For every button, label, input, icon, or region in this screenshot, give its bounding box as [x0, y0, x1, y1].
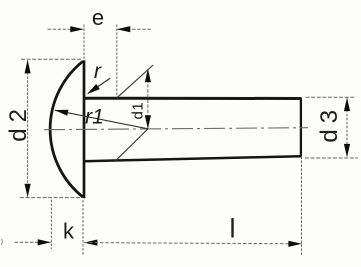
- l right arrowhead: [288, 241, 302, 247]
- d2 bottom extension line: [20, 197, 81, 199]
- radius line for r1 from dome to centre: [55, 110, 148, 129]
- d3 top arrowhead: [344, 98, 350, 112]
- k left arrowhead: [38, 239, 52, 245]
- shank top edge: [84, 97, 302, 100]
- oblique extension line (bottom) for d1: [116, 129, 148, 161]
- shank bottom edge: [84, 156, 301, 161]
- svg-text:r1: r1: [85, 106, 104, 129]
- d1 top arrowhead: [145, 69, 151, 83]
- svg-text:l: l: [230, 214, 236, 244]
- k left extension line (dome apex): [50, 200, 52, 250]
- arrowhead of r1 on dome arc: [55, 110, 69, 116]
- dimension e: right arrowhead: [117, 26, 131, 32]
- l right extension line (shank end): [301, 157, 303, 256]
- d3 dimension line: [346, 98, 348, 158]
- svg-text:k: k: [63, 219, 75, 244]
- shared extension line below head face (k right / l left): [82, 200, 84, 256]
- oblique extension line (top) for d1: [117, 65, 153, 98]
- d2 bottom arrowhead: [25, 184, 31, 198]
- svg-text:d1: d1: [129, 102, 146, 120]
- dimension line d1: [147, 69, 149, 129]
- dimension e: right segment: [117, 28, 152, 30]
- l dimension line: [84, 243, 302, 244]
- centerline (dash-dot axis): [44, 128, 308, 130]
- extension line above head face for e: [83, 25, 85, 60]
- svg-text:d2: d2: [5, 103, 32, 142]
- d3 top extension line: [306, 96, 355, 98]
- d2 dimension line: [27, 60, 29, 197]
- scan artifact at left edge: [1, 239, 4, 245]
- rivet head flat face line: [83, 60, 86, 198]
- d2 top extension line: [21, 58, 83, 60]
- dimension e: left segment with extension over head face: [48, 28, 84, 30]
- k right / l left arrowhead: [84, 240, 98, 246]
- d3 bottom arrowhead: [344, 144, 350, 158]
- rivet head arc (r1 dome outline): [50, 61, 83, 197]
- extension line at e right (shank point): [116, 25, 118, 98]
- k dimension left segment: [15, 241, 52, 243]
- d1 bottom arrowhead: [145, 115, 151, 129]
- d3 bottom extension line: [305, 157, 358, 159]
- leader line for r (fillet radius): [88, 78, 110, 93]
- svg-text:r: r: [94, 60, 102, 83]
- shank right end face: [300, 98, 302, 156]
- d2 top arrowhead: [25, 60, 31, 74]
- svg-text:e: e: [92, 5, 104, 30]
- arrowhead of r leader: [87, 84, 100, 94]
- dimension e: left arrowhead: [70, 26, 84, 32]
- svg-text:d3: d3: [316, 104, 343, 143]
